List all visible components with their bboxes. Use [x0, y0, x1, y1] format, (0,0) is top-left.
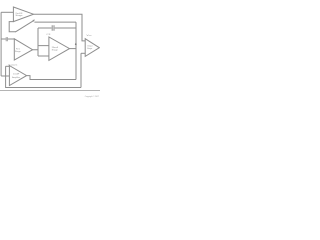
svg-text:1st AF: 1st AF	[13, 73, 20, 76]
svg-text:Stage: Stage	[87, 47, 93, 50]
potentiometer wiper arrow	[15, 20, 34, 32]
potentiometer arrow head	[33, 20, 35, 22]
amplifier A1	[13, 7, 33, 22]
wire to bottom amp input	[1, 75, 9, 77]
capacitor C1 plates	[52, 25, 54, 31]
amplifier A5	[9, 66, 26, 86]
amplifier A2	[14, 39, 32, 60]
wire bottom rail	[6, 66, 81, 87]
svg-text:Stage: Stage	[52, 49, 59, 52]
wire left vertical rail	[0, 12, 2, 76]
wire feedback vertical x81	[80, 53, 82, 87]
wire stage1 output to right corner	[34, 14, 86, 41]
wire stage4 lower input	[81, 52, 85, 54]
wire input top-left	[1, 11, 13, 13]
capacitor C2 plates	[6, 37, 7, 41]
wire coupling with capacitor	[38, 27, 76, 29]
wire corner above bottom amp	[6, 65, 10, 67]
wire vertical x38 to stage2 output	[37, 28, 39, 56]
potentiometer VR1 body	[9, 22, 16, 32]
amplifier A3	[49, 37, 70, 60]
svg-text:Vcc: Vcc	[86, 35, 92, 37]
wire input cap C2 leads	[1, 38, 14, 40]
svg-text:Op amp IC: Op amp IC	[8, 64, 18, 66]
svg-text:Output: Output	[87, 44, 93, 47]
wire rail B horizontal	[34, 21, 76, 23]
wire stage2 to stage3	[33, 46, 49, 56]
wire rail B vertical x76	[75, 22, 77, 79]
wire stage3 output	[70, 48, 77, 50]
svg-text:Amplifier: Amplifier	[12, 76, 20, 79]
wire bottom-left return	[27, 76, 76, 80]
amplifier A4 output stage	[85, 39, 99, 57]
svg-text:Copyright © 2017: Copyright © 2017	[85, 95, 100, 98]
svg-text:Stage: Stage	[15, 14, 23, 17]
separator line	[0, 90, 100, 92]
background	[0, 0, 100, 100]
junction dot	[75, 43, 77, 45]
svg-text:Stage: Stage	[15, 50, 22, 53]
